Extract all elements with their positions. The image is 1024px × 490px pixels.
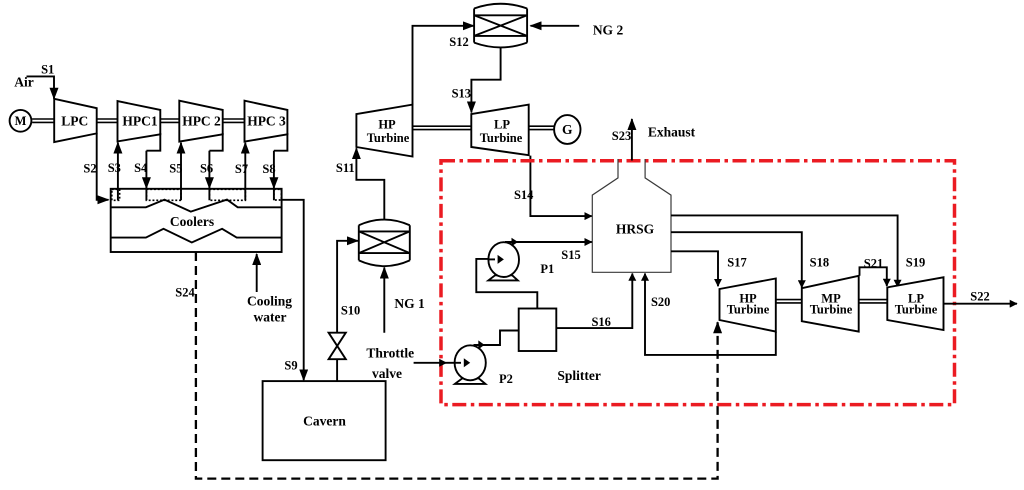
svg-text:HPC 3: HPC 3	[247, 113, 286, 128]
turbine LP (gas)	[471, 105, 528, 156]
svg-text:S16: S16	[591, 315, 610, 329]
svg-text:Exhaust: Exhaust	[648, 125, 696, 140]
turbine LP (steam)	[887, 277, 943, 330]
svg-text:M: M	[15, 114, 27, 128]
wire cooling water	[256, 254, 258, 292]
svg-text:S12: S12	[449, 35, 468, 49]
wire S10	[337, 241, 358, 333]
svg-text:NG 2: NG 2	[593, 23, 624, 38]
cavern	[263, 381, 386, 460]
svg-text:LPC: LPC	[61, 113, 88, 128]
wire S17 HRSG to HP steam turbine	[671, 251, 718, 286]
wire S24 dashed recycle	[196, 252, 718, 479]
svg-text:Turbine: Turbine	[367, 131, 410, 145]
svg-text:Splitter: Splitter	[557, 368, 601, 383]
turbine HP (steam)	[720, 279, 776, 332]
svg-text:S13: S13	[452, 87, 471, 101]
svg-text:S3: S3	[108, 161, 121, 175]
svg-text:S22: S22	[970, 289, 989, 303]
wire S4	[145, 151, 147, 189]
svg-text:Cooling: Cooling	[247, 294, 292, 309]
motor M	[10, 110, 32, 132]
wire S15 P1 to HRSG	[505, 241, 592, 243]
combustor NG1	[359, 220, 410, 267]
combustor S12	[474, 4, 527, 48]
HPC3 outlet duct	[274, 133, 288, 151]
svg-text:S20: S20	[651, 295, 670, 309]
wire S11 combustor to HP turbine	[356, 148, 384, 219]
svg-text:S21: S21	[864, 256, 883, 270]
compressor HPC2	[179, 101, 222, 142]
svg-text:LP: LP	[494, 117, 510, 131]
shaft LP turbine to generator	[529, 126, 555, 129]
pump P1	[488, 275, 517, 280]
wire S6	[208, 151, 210, 189]
wire S21 MP to LP bridge	[860, 267, 887, 286]
wire S5	[180, 143, 182, 189]
shaft HPC1-HPC2	[160, 119, 179, 122]
wire S2	[97, 133, 109, 199]
wire NG1 fuel inlet	[383, 268, 385, 333]
wire cavern to throttle valve	[336, 359, 338, 381]
compressor HPC3	[245, 101, 288, 142]
svg-text:S4: S4	[134, 161, 148, 175]
svg-text:S23: S23	[612, 129, 631, 143]
svg-text:HP: HP	[378, 117, 396, 131]
svg-text:Coolers: Coolers	[170, 214, 214, 229]
svg-text:Turbine: Turbine	[480, 131, 523, 145]
svg-text:S9: S9	[284, 359, 297, 373]
cooler channel dotted rect 4	[274, 189, 282, 200]
coolers box	[111, 189, 282, 252]
svg-text:Throttle: Throttle	[366, 346, 414, 361]
throttle valve	[329, 333, 346, 360]
compressor LPC	[54, 99, 96, 142]
cooler channel dotted rect 2	[146, 189, 181, 200]
wire HP turbine exhaust to combustor S12	[413, 26, 474, 105]
svg-text:HRSG: HRSG	[616, 222, 655, 237]
wire S1 air inlet	[27, 76, 55, 98]
svg-text:P2: P2	[499, 372, 513, 386]
svg-text:S7: S7	[235, 162, 248, 176]
HPC1 outlet duct	[146, 133, 160, 151]
cooler coil lower	[111, 229, 282, 243]
wire S9 cooler to cavern	[282, 200, 304, 380]
HPC2 outlet duct	[209, 133, 222, 151]
svg-text:S5: S5	[169, 162, 182, 176]
cooler channel dotted rect 1	[112, 189, 120, 200]
shaft M-LPC	[32, 119, 54, 122]
wire S22 LP steam turbine outlet	[944, 303, 1018, 305]
shaft HP-MP steam	[776, 300, 802, 303]
wire S16 splitter to HRSG	[556, 274, 632, 329]
shaft MP-LP steam	[859, 300, 888, 303]
svg-text:water: water	[254, 310, 287, 325]
svg-text:NG 1: NG 1	[394, 296, 425, 311]
shaft HPC2-HPC3	[223, 119, 245, 122]
svg-text:P1: P1	[540, 262, 554, 276]
wire S13 combustor to LP turbine	[471, 48, 500, 113]
wire splitter to P1	[476, 259, 537, 309]
cooler channel inner stubs	[118, 189, 274, 201]
wire NG2 inlet	[531, 25, 580, 27]
svg-text:S17: S17	[727, 255, 746, 269]
svg-text:S11: S11	[336, 161, 355, 175]
svg-text:S15: S15	[561, 248, 580, 262]
svg-text:Turbine: Turbine	[810, 303, 853, 317]
svg-text:HPC1: HPC1	[122, 113, 157, 128]
svg-text:Cavern: Cavern	[303, 413, 346, 428]
svg-text:Turbine: Turbine	[895, 303, 938, 317]
pump P2	[455, 378, 486, 384]
wire S3	[117, 143, 119, 189]
red CCGT boundary	[441, 161, 955, 405]
svg-text:S24: S24	[175, 286, 195, 300]
wire P2 to splitter	[474, 331, 519, 346]
svg-text:S18: S18	[810, 255, 829, 269]
splitter	[519, 309, 557, 352]
wire S14 LP turbine to HRSG	[530, 156, 591, 217]
HRSG	[592, 159, 671, 272]
turbine MP (steam)	[802, 276, 859, 332]
shaft HP-LP gas turbines	[413, 126, 472, 129]
svg-text:S10: S10	[341, 304, 360, 318]
wire feedwater into P2	[414, 362, 447, 364]
compressor HPC1	[118, 101, 161, 141]
svg-text:S8: S8	[262, 162, 275, 176]
cooler coil upper	[111, 200, 282, 212]
turbine HP (gas)	[356, 105, 412, 157]
generator G	[554, 115, 580, 144]
svg-text:Turbine: Turbine	[727, 303, 770, 317]
wire S20 HP steam turbine exhaust to HRSG	[645, 274, 776, 355]
svg-text:S2: S2	[83, 162, 96, 176]
svg-text:S6: S6	[200, 162, 213, 176]
svg-text:valve: valve	[372, 366, 402, 381]
wire S23 exhaust	[631, 119, 633, 161]
shaft LPC-HPC1	[97, 119, 118, 122]
svg-text:S14: S14	[514, 188, 534, 202]
wire S18 HRSG to MP turbine	[671, 232, 802, 287]
svg-text:S1: S1	[41, 62, 54, 76]
wire S19 HRSG to LP steam turbine	[671, 215, 898, 287]
cooler channel dotted rect 3	[209, 189, 245, 200]
svg-text:G: G	[562, 122, 573, 137]
svg-text:HPC 2: HPC 2	[182, 113, 221, 128]
svg-text:S19: S19	[906, 255, 925, 269]
wire S7	[244, 143, 246, 189]
wire S8	[273, 151, 275, 189]
